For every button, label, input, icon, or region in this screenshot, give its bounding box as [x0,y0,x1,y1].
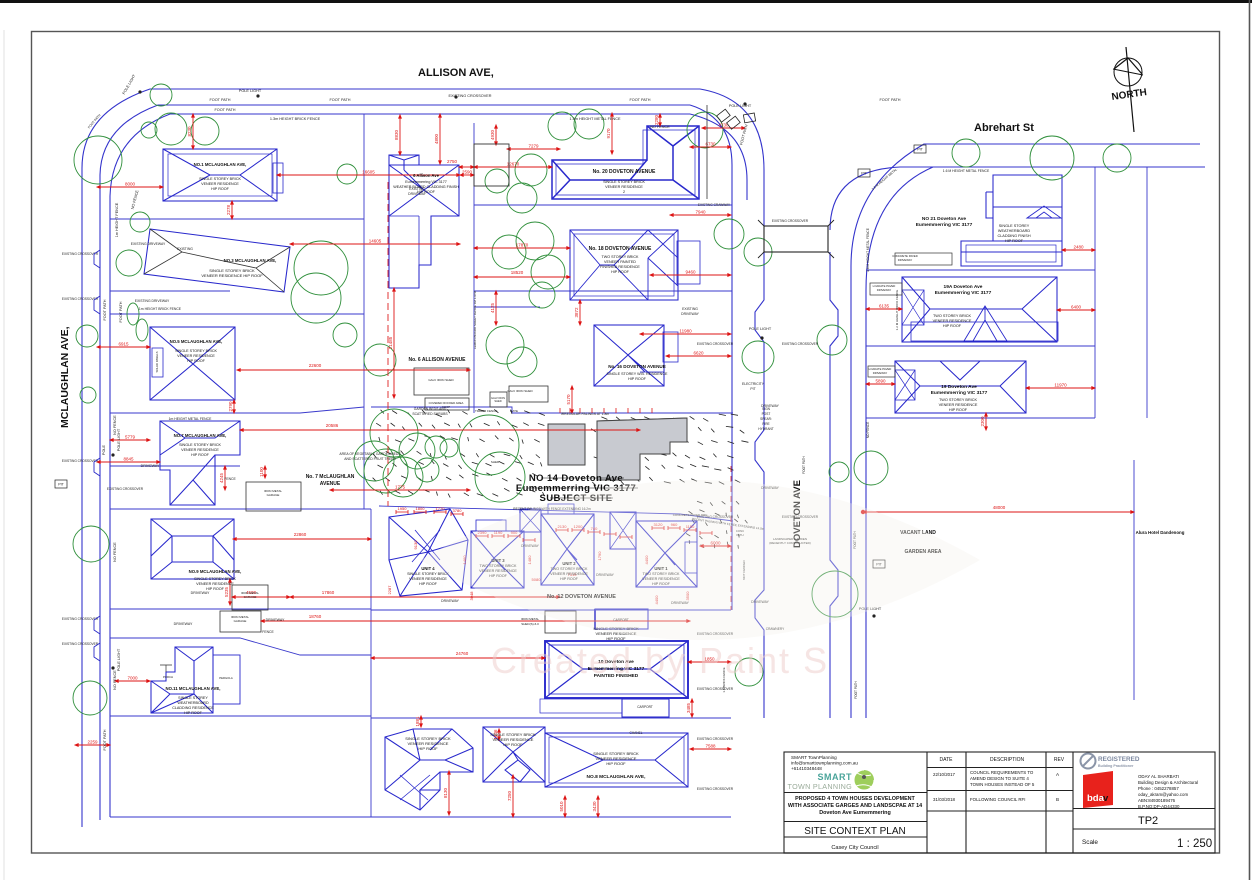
svg-text:TWO STOREY BRICK: TWO STOREY BRICK [939,398,978,402]
svg-text:EXISTING CROSSOVER: EXISTING CROSSOVER [62,617,99,621]
svg-text:24760: 24760 [456,651,469,656]
svg-text:HIP ROOF: HIP ROOF [419,582,438,586]
svg-text:2590: 2590 [462,170,473,175]
svg-text:bda: bda [1087,793,1105,804]
svg-text:DRIVEWAY: DRIVEWAY [141,464,160,468]
culvert rectangle across Doveton [764,226,828,252]
svg-text:4245: 4245 [219,472,224,483]
svg-text:7279: 7279 [528,144,539,149]
house bottom-left complex [385,729,473,810]
svg-text:PIT: PIT [917,148,923,152]
label 10 Doveton [0,0,1,1]
svg-text:FENCE: FENCE [224,477,236,481]
svg-text:GATE: GATE [510,409,518,413]
svg-text:NO.9 MCLAUGHLAN AVE,: NO.9 MCLAUGHLAN AVE, [189,569,242,574]
svg-text:HIP ROOF: HIP ROOF [611,270,630,274]
svg-text:FOOT PATH: FOOT PATH [854,680,858,698]
svg-text:VENEER RESIDENCE: VENEER RESIDENCE [181,448,219,452]
svg-text:22600: 22600 [309,363,322,368]
svg-text:TWO STOREY BRICK: TWO STOREY BRICK [933,314,972,318]
svg-text:Casey City Council: Casey City Council [831,845,878,851]
corner inner to west property [690,105,732,610]
scan right edge line [1249,0,1251,880]
svg-text:SHED: SHED [491,460,500,464]
subject south fence [379,506,733,521]
svg-text:TP2: TP2 [1138,815,1158,827]
svg-text:IRREGULAR PALINGS AT 1.8m: IRREGULAR PALINGS AT 1.8m [561,412,610,416]
svg-text:PIT: PIT [750,387,755,391]
corner Allison to Doveton outer [700,89,764,226]
svg-text:HIP ROOF: HIP ROOF [606,761,626,766]
svg-text:DRIVEWAY: DRIVEWAY [681,312,699,316]
svg-text:NO.11 MCLAUGHLAN AVE,: NO.11 MCLAUGHLAN AVE, [166,686,221,691]
lot line No.7 driveway [110,466,371,509]
svg-text:1100: 1100 [259,467,264,477]
logo globe [854,770,874,790]
svg-text:8000: 8000 [125,182,136,187]
label No.21 Doveton [916,216,973,228]
crazy iron shed [490,392,507,407]
svg-text:NO FENCE: NO FENCE [650,125,670,129]
house 19 Doveton Ave [895,361,1026,413]
Allison property line east part [364,113,690,115]
road Doveton east kerb [830,252,838,718]
svg-text:POLE LIGHT: POLE LIGHT [117,428,121,451]
top scan bar [0,0,1252,3]
svg-text:HIP ROOF: HIP ROOF [628,377,647,381]
svg-text:6 Allison Ave: 6 Allison Ave [413,173,440,178]
svg-text:COOP: COOP [442,405,450,409]
svg-text:POLE LIGHT: POLE LIGHT [749,327,772,331]
svg-text:AND SCATTERED FRUIT TREES: AND SCATTERED FRUIT TREES [344,457,396,461]
svg-text:WEATHERBOARD: WEATHERBOARD [998,229,1030,233]
iron metal garage No.7 [246,482,301,511]
label bottom small house [490,732,536,747]
subject north boundary [371,407,733,413]
svg-text:3780: 3780 [453,508,463,513]
svg-text:FOOT PATH: FOOT PATH [119,301,123,322]
svg-text:1m HEIGHT FENCE: 1m HEIGHT FENCE [115,202,119,237]
house NO.8 MCLAUGHLAN AVE [545,733,688,787]
bottom row north line [371,717,731,719]
svg-text:VENEER RESIDENCE: VENEER RESIDENCE [196,582,234,586]
svg-text:Scale: Scale [1082,839,1098,846]
svg-text:1.6 M HEIGHT METAL FENCE: 1.6 M HEIGHT METAL FENCE [866,228,870,272]
house No.20 DOVETON AVENUE [552,126,699,199]
svg-text:DRIVEWAY: DRIVEWAY [761,404,779,408]
svg-text:11970: 11970 [1054,383,1067,388]
pit diamonds at corner [717,109,756,129]
label unit 1 [642,566,680,586]
label house No.9 [189,569,242,591]
svg-text:FOOT PATH: FOOT PATH [629,98,650,102]
svg-text:GARAGE: GARAGE [234,619,247,623]
svg-text:CHANEL: CHANEL [630,731,643,735]
svg-text:5235: 5235 [224,586,229,597]
house 19A Doveton Ave [902,277,1058,342]
svg-text:POST: POST [762,412,771,416]
svg-text:COUNCIL REQUIREMENTS TO: COUNCIL REQUIREMENTS TO [970,770,1034,775]
svg-text:Eumemmerring VIC 3177: Eumemmerring VIC 3177 [935,290,992,296]
svg-text:17870: 17870 [516,243,529,248]
svg-text:PIT: PIT [861,172,867,176]
svg-text:Building Design & Architectura: Building Design & Architectural [1138,780,1198,785]
easement dashed red line [387,182,389,506]
svg-text:1m HEIGHT METAL FENCE: 1m HEIGHT METAL FENCE [169,417,212,421]
svg-text:PERGOLA: PERGOLA [219,676,233,680]
svg-text:FOOT PATH: FOOT PATH [103,299,107,320]
svg-text:SINGLE STOREY BRICK: SINGLE STOREY BRICK [603,180,645,184]
trees (green circles) [73,84,1131,715]
svg-text:5779: 5779 [125,435,136,440]
svg-text:2480: 2480 [1073,245,1084,250]
label No.18 Doveton [589,246,652,274]
svg-text:17860: 17860 [322,590,335,595]
covered roofed area coop [425,398,469,410]
svg-text:DRIVEWAY: DRIVEWAY [877,288,892,292]
svg-text:TWO STOREY BRICK: TWO STOREY BRICK [602,255,639,259]
svg-text:2: 2 [623,190,625,194]
culvert wing walls [758,220,834,258]
svg-text:1.2 M HEIGHT BRICK FENCE: 1.2 M HEIGHT BRICK FENCE [895,290,899,331]
svg-text:FENCE: FENCE [262,630,274,634]
scan left faint edge [3,30,5,880]
existing driveway black rect (6 Allison) [474,144,509,186]
lot line No.11 north [110,638,371,655]
svg-text:3485: 3485 [686,702,691,713]
unit 2 subject [541,504,594,585]
svg-text:EXISTING CROSSOVER: EXISTING CROSSOVER [697,687,734,691]
svg-text:SINGLE STOREY BRICK: SINGLE STOREY BRICK [179,443,221,447]
house NO.5 MCLAUGHLAN AVE [150,327,235,400]
svg-text:Doveton Ave Eumemmering: Doveton Ave Eumemmering [819,810,891,816]
svg-text:WITH ASSOCIATE GARGES AND LAND: WITH ASSOCIATE GARGES AND LANDSCPAE AT 1… [788,803,922,809]
svg-text:VENEER RESIDENCE: VENEER RESIDENCE [177,354,215,358]
svg-text:PROPOSED 4 TOWN HOUSES DEVELOP: PROPOSED 4 TOWN HOUSES DEVELOPMENT [795,796,915,802]
svg-text:VENEER RESIDENCE: VENEER RESIDENCE [605,185,643,189]
title block texts left [788,755,1065,851]
lot line No.9 south [110,608,371,610]
svg-text:1770: 1770 [436,506,446,511]
svg-text:4800: 4800 [434,133,439,144]
svg-text:8830: 8830 [394,129,399,140]
faint swoosh [420,480,980,640]
svg-text:4730: 4730 [718,123,729,128]
svg-text:SMART: SMART [818,772,853,782]
timber fence marks [560,408,652,413]
svg-text:FOOT PATH: FOOT PATH [329,98,350,102]
svg-text:2280: 2280 [654,114,659,125]
svg-text:HIP ROOF: HIP ROOF [949,408,968,412]
left kerb crossover trapezoids [94,250,100,661]
tiny annotations [62,73,990,791]
svg-text:SPEAR:: SPEAR: [760,417,772,421]
svg-text:48000: 48000 [993,505,1006,510]
svg-text:8845: 8845 [123,457,134,462]
svg-text:HYDRANT: HYDRANT [758,427,773,431]
svg-text:NO 21 Doveton Ave: NO 21 Doveton Ave [922,216,966,222]
svg-text:FOOT PATH: FOOT PATH [214,108,235,112]
house NO.3 MCLAUGHLAN AVE [144,229,290,292]
svg-text:VENEER RESIDENCE HIP ROOF: VENEER RESIDENCE HIP ROOF [201,273,263,278]
registered logo [1081,754,1140,769]
lot line No.5 south [110,407,364,413]
label No.20 Doveton [593,169,656,194]
svg-text:Building Practitioner: Building Practitioner [1098,764,1134,768]
svg-text:18520: 18520 [511,270,524,275]
svg-text:HIP ROOF: HIP ROOF [184,711,203,715]
svg-text:EXISTING CROSSOVER: EXISTING CROSSOVER [62,459,99,463]
svg-text:6400: 6400 [1071,305,1082,310]
house NO.7 MCLAUGHLAN AVE [160,421,240,505]
lot line No.11 south [110,715,371,717]
svg-text:21485: 21485 [388,336,393,349]
label bottom-left house [405,736,451,751]
label 6 Allison Ave [393,173,459,194]
svg-text:6620: 6620 [693,351,704,356]
svg-text:GALV IRON SHED: GALV IRON SHED [428,378,454,382]
svg-text:WEATHERBOARD: WEATHERBOARD [177,701,209,705]
svg-text:REV: REV [1054,757,1065,763]
right east verticals [1095,167,1147,418]
svg-text:AREA OF VEGETABLE GARDEN BEDS: AREA OF VEGETABLE GARDEN BEDS [339,452,401,456]
svg-text:3048: 3048 [469,591,474,601]
label 19A Doveton [935,284,992,296]
svg-text:5890: 5890 [875,379,886,384]
label house No.11 [166,686,221,715]
svg-text:22/10/2017: 22/10/2017 [933,772,956,777]
svg-text:18760: 18760 [309,614,322,619]
svg-text:SCATTERED SHRUBS: SCATTERED SHRUBS [412,412,448,416]
svg-text:2750: 2750 [447,159,458,164]
svg-text:7588: 7588 [705,744,716,749]
svg-text:6135: 6135 [879,304,890,309]
svg-text:SINGLE STOREY BRICK: SINGLE STOREY BRICK [194,577,236,581]
svg-text:FOOT PATH: FOOT PATH [209,98,230,102]
label house No.5 [170,339,223,363]
unit 4 subject [389,509,468,596]
svg-text:WEATHER BOARD CLADDING FINISH: WEATHER BOARD CLADDING FINISH [393,185,459,189]
grey building B redraw [597,418,687,480]
label NO 14 Doveton Ave SUBJECT SITE [516,473,638,504]
svg-text:B.P.NO:DP-AD44330: B.P.NO:DP-AD44330 [1138,804,1180,809]
svg-text:1800: 1800 [416,506,426,511]
svg-text:2287: 2287 [387,585,392,595]
svg-text:HIP ROOF: HIP ROOF [187,359,206,363]
svg-text:31/03/2018: 31/03/2018 [933,797,956,802]
svg-text:NO FENCE: NO FENCE [113,670,117,690]
svg-text:Eumemmerring VIC 3177: Eumemmerring VIC 3177 [405,180,447,184]
svg-text:5010: 5010 [559,801,564,812]
Doveton east footpath [850,266,852,718]
svg-text:VENEER RESIDENCE: VENEER RESIDENCE [939,403,978,407]
svg-text:16605: 16605 [362,170,375,175]
svg-text:ABN:84930189476: ABN:84930189476 [1138,798,1176,803]
svg-text:2259: 2259 [87,740,98,745]
svg-text:NO.7 MCLAUGHLAN AVE,: NO.7 MCLAUGHLAN AVE, [174,433,227,438]
svg-text:EXISTING DRIVEWAY: EXISTING DRIVEWAY [131,242,166,246]
svg-text:No. 20 DOVETON AVENUE: No. 20 DOVETON AVENUE [593,169,656,175]
svg-text:HIP ROOF: HIP ROOF [503,742,523,747]
galv iron shed No.8 Allison [414,368,469,395]
svg-text:11980: 11980 [679,329,692,334]
vacant land east line [1133,460,1135,700]
house 6 Allison Ave [389,155,459,288]
svg-text:EXISTING CROSSOVER: EXISTING CROSSOVER [62,297,99,301]
house No.16 DOVETON AVENUE [594,325,678,386]
svg-text:FOOT PATH: FOOT PATH [103,729,107,750]
house No.18 DOVETON AVENUE [570,230,700,300]
svg-text:DRIVEWAY: DRIVEWAY [873,371,888,375]
svg-text:LEMON BOARD SHEET FENCE 1M 1.9: LEMON BOARD SHEET FENCE 1M 1.97M [473,290,477,349]
Abrehart north kerb [851,144,1200,266]
svg-text:Abrehart St: Abrehart St [974,122,1034,134]
svg-text:14605: 14605 [369,239,382,244]
lot line 19 south [866,417,1095,419]
red dim cluster units row [396,510,712,542]
pit box [914,145,926,153]
svg-text:FIRE: FIRE [762,422,769,426]
svg-text:1m HEIGHT BRICK FENCE: 1m HEIGHT BRICK FENCE [139,307,182,311]
svg-text:POLE LIGHT: POLE LIGHT [117,648,121,671]
svg-text:5170: 5170 [566,394,571,405]
brick garage 1 [520,509,541,532]
svg-text:CLADDING FINISH: CLADDING FINISH [997,234,1030,238]
iron metal garage 2 [220,611,261,632]
svg-text:SHED(S)-6.0: SHED(S)-6.0 [521,622,539,626]
svg-text:GARAGE: GARAGE [267,493,280,497]
lot line No.21 south [866,269,1095,271]
house NO.11 MCLAUGHLAN AVE [151,647,240,713]
svg-text:HIP ROOF: HIP ROOF [943,324,962,328]
svg-text:GALV IRON SHED: GALV IRON SHED [507,389,533,393]
svg-text:NO.3 MCLAUGHLAN AVE,: NO.3 MCLAUGHLAN AVE, [224,258,277,263]
svg-text:DRIVEWAY: DRIVEWAY [441,599,459,603]
svg-text:VENEER RESIDENCE: VENEER RESIDENCE [933,319,972,323]
pit box [55,480,67,488]
svg-text:VENEER RESIDENCE: VENEER RESIDENCE [409,577,447,581]
svg-text:HIP ROOF: HIP ROOF [211,187,230,191]
svg-text:1.6 M HEIGHT METAL FENCE: 1.6 M HEIGHT METAL FENCE [943,169,990,173]
svg-text:9460: 9460 [685,270,696,275]
svg-text:v: v [1103,793,1109,804]
svg-text:8130: 8130 [443,787,448,798]
svg-text:Created by Paint S: Created by Paint S [491,640,829,681]
bdav logo [1083,771,1113,808]
svg-text:AMEND DESIGN TO SUITE 4: AMEND DESIGN TO SUITE 4 [970,776,1029,781]
svg-text:DRIVEWAY: DRIVEWAY [266,618,285,622]
svg-text:Eumemmerring VIC 3177: Eumemmerring VIC 3177 [916,222,973,228]
svg-text:20586: 20586 [326,423,339,428]
svg-text:TOWN PLANNING: TOWN PLANNING [788,782,853,791]
grey building B subject site [597,418,687,480]
svg-text:DRIVEWAY: DRIVEWAY [174,622,193,626]
svg-text:3872: 3872 [574,307,579,318]
svg-text:VENEER RESIDENCE: VENEER RESIDENCE [201,182,239,186]
svg-text:NO.8 MCLAUGHLAN AVE,: NO.8 MCLAUGHLAN AVE, [587,774,647,780]
svg-text:SINGLE STOREY W.B. RESIDENCE: SINGLE STOREY W.B. RESIDENCE [607,372,668,376]
svg-text:DRIVEWAY: DRIVEWAY [191,591,210,595]
lot fence No.3 south [110,291,364,314]
Doveton east fence [865,290,867,718]
label No.8 McLaughlan [587,751,647,780]
svg-text:EXISTING CROSSOVER: EXISTING CROSSOVER [62,642,99,646]
footpath property line left/top [110,114,364,817]
svg-text:PIT: PIT [58,483,64,487]
svg-text:7250: 7250 [507,790,512,801]
svg-text:SMART TownPlanning: SMART TownPlanning [791,755,837,760]
svg-text:NO.1 MCLAUGHLAN AVE,: NO.1 MCLAUGHLAN AVE, [194,162,247,167]
house bottom small [483,727,545,782]
svg-text:9170: 9170 [606,128,611,139]
svg-text:8230: 8230 [187,126,192,137]
unit 3 subject [471,520,524,588]
svg-text:1950: 1950 [398,506,408,511]
Abrehart fence curve [866,167,933,290]
svg-text:Alura Hotel Dandenong: Alura Hotel Dandenong [1136,530,1185,535]
svg-text:EXISTING: EXISTING [409,187,425,191]
label 19 Doveton [931,384,988,396]
vertical boundary x474 [473,123,475,413]
house NO.9 MCLAUGHLAN AVE [151,519,234,579]
black lot line near corner [706,105,708,199]
svg-text:9130: 9130 [413,540,418,550]
label house No.3 [224,258,277,263]
svg-text:TIMBER FENCE: TIMBER FENCE [475,409,497,413]
svg-text:Phone : 0452278857: Phone : 0452278857 [1138,786,1179,791]
svg-text:No. 18 DOVETON AVENUE: No. 18 DOVETON AVENUE [589,246,652,252]
svg-text:SITE CONTEXT PLAN: SITE CONTEXT PLAN [804,826,906,837]
svg-text:ALLISON AVE,: ALLISON AVE, [418,67,494,79]
svg-text:SOLAR PANELS: SOLAR PANELS [155,351,159,372]
units south lot line [371,609,731,611]
svg-text:HIP ROOF: HIP ROOF [418,746,438,751]
subject west boundary x371 [370,509,372,817]
red dimensions [75,113,1134,817]
svg-text:EXISTING CROSSOVER: EXISTING CROSSOVER [697,787,734,791]
svg-text:6915: 6915 [118,342,129,347]
svg-text:DRIVEWAY: DRIVEWAY [408,192,426,196]
road Doveton west kerb [755,252,764,718]
pit box [873,560,885,568]
svg-text:NO FENCE: NO FENCE [113,542,117,562]
easement dashed red line 2 [730,466,732,610]
concrete paved driveway 19A [870,283,902,295]
svg-text:Eumemmerring VIC 3177: Eumemmerring VIC 3177 [931,390,988,396]
svg-text:POLE LIGHT: POLE LIGHT [729,104,752,108]
label unit 2 [550,561,588,581]
svg-text:3430: 3430 [592,801,597,812]
lot line No.20 south [474,204,732,206]
svg-text:NO.5 MCLAUGHLAN AVE,: NO.5 MCLAUGHLAN AVE, [170,339,223,344]
svg-text:EXISTING: EXISTING [177,247,193,251]
svg-text:EXISTING DRIVEWAY: EXISTING DRIVEWAY [135,299,170,303]
brick garage 2 [610,512,636,549]
svg-text:HIP ROOF: HIP ROOF [1005,239,1024,243]
svg-text:19 Doveton Ave: 19 Doveton Ave [941,384,977,390]
house 10 Doveton Ave [545,641,688,698]
svg-text:VENEER PAINTED: VENEER PAINTED [604,260,636,264]
svg-text:REGISTERED: REGISTERED [1098,756,1140,763]
grey building A redraw [548,424,585,465]
concrete paved driveway 19 [868,366,895,377]
svg-text:POLE: POLE [102,444,106,455]
carport of 10 Doveton [540,699,669,717]
svg-text:DRIVEWAY: DRIVEWAY [898,258,913,262]
road inner kerb Allison south [100,105,690,820]
svg-text:No. 16 DOVETON AVENUE: No. 16 DOVETON AVENUE [608,364,666,369]
lot line 19A south [866,345,1095,347]
